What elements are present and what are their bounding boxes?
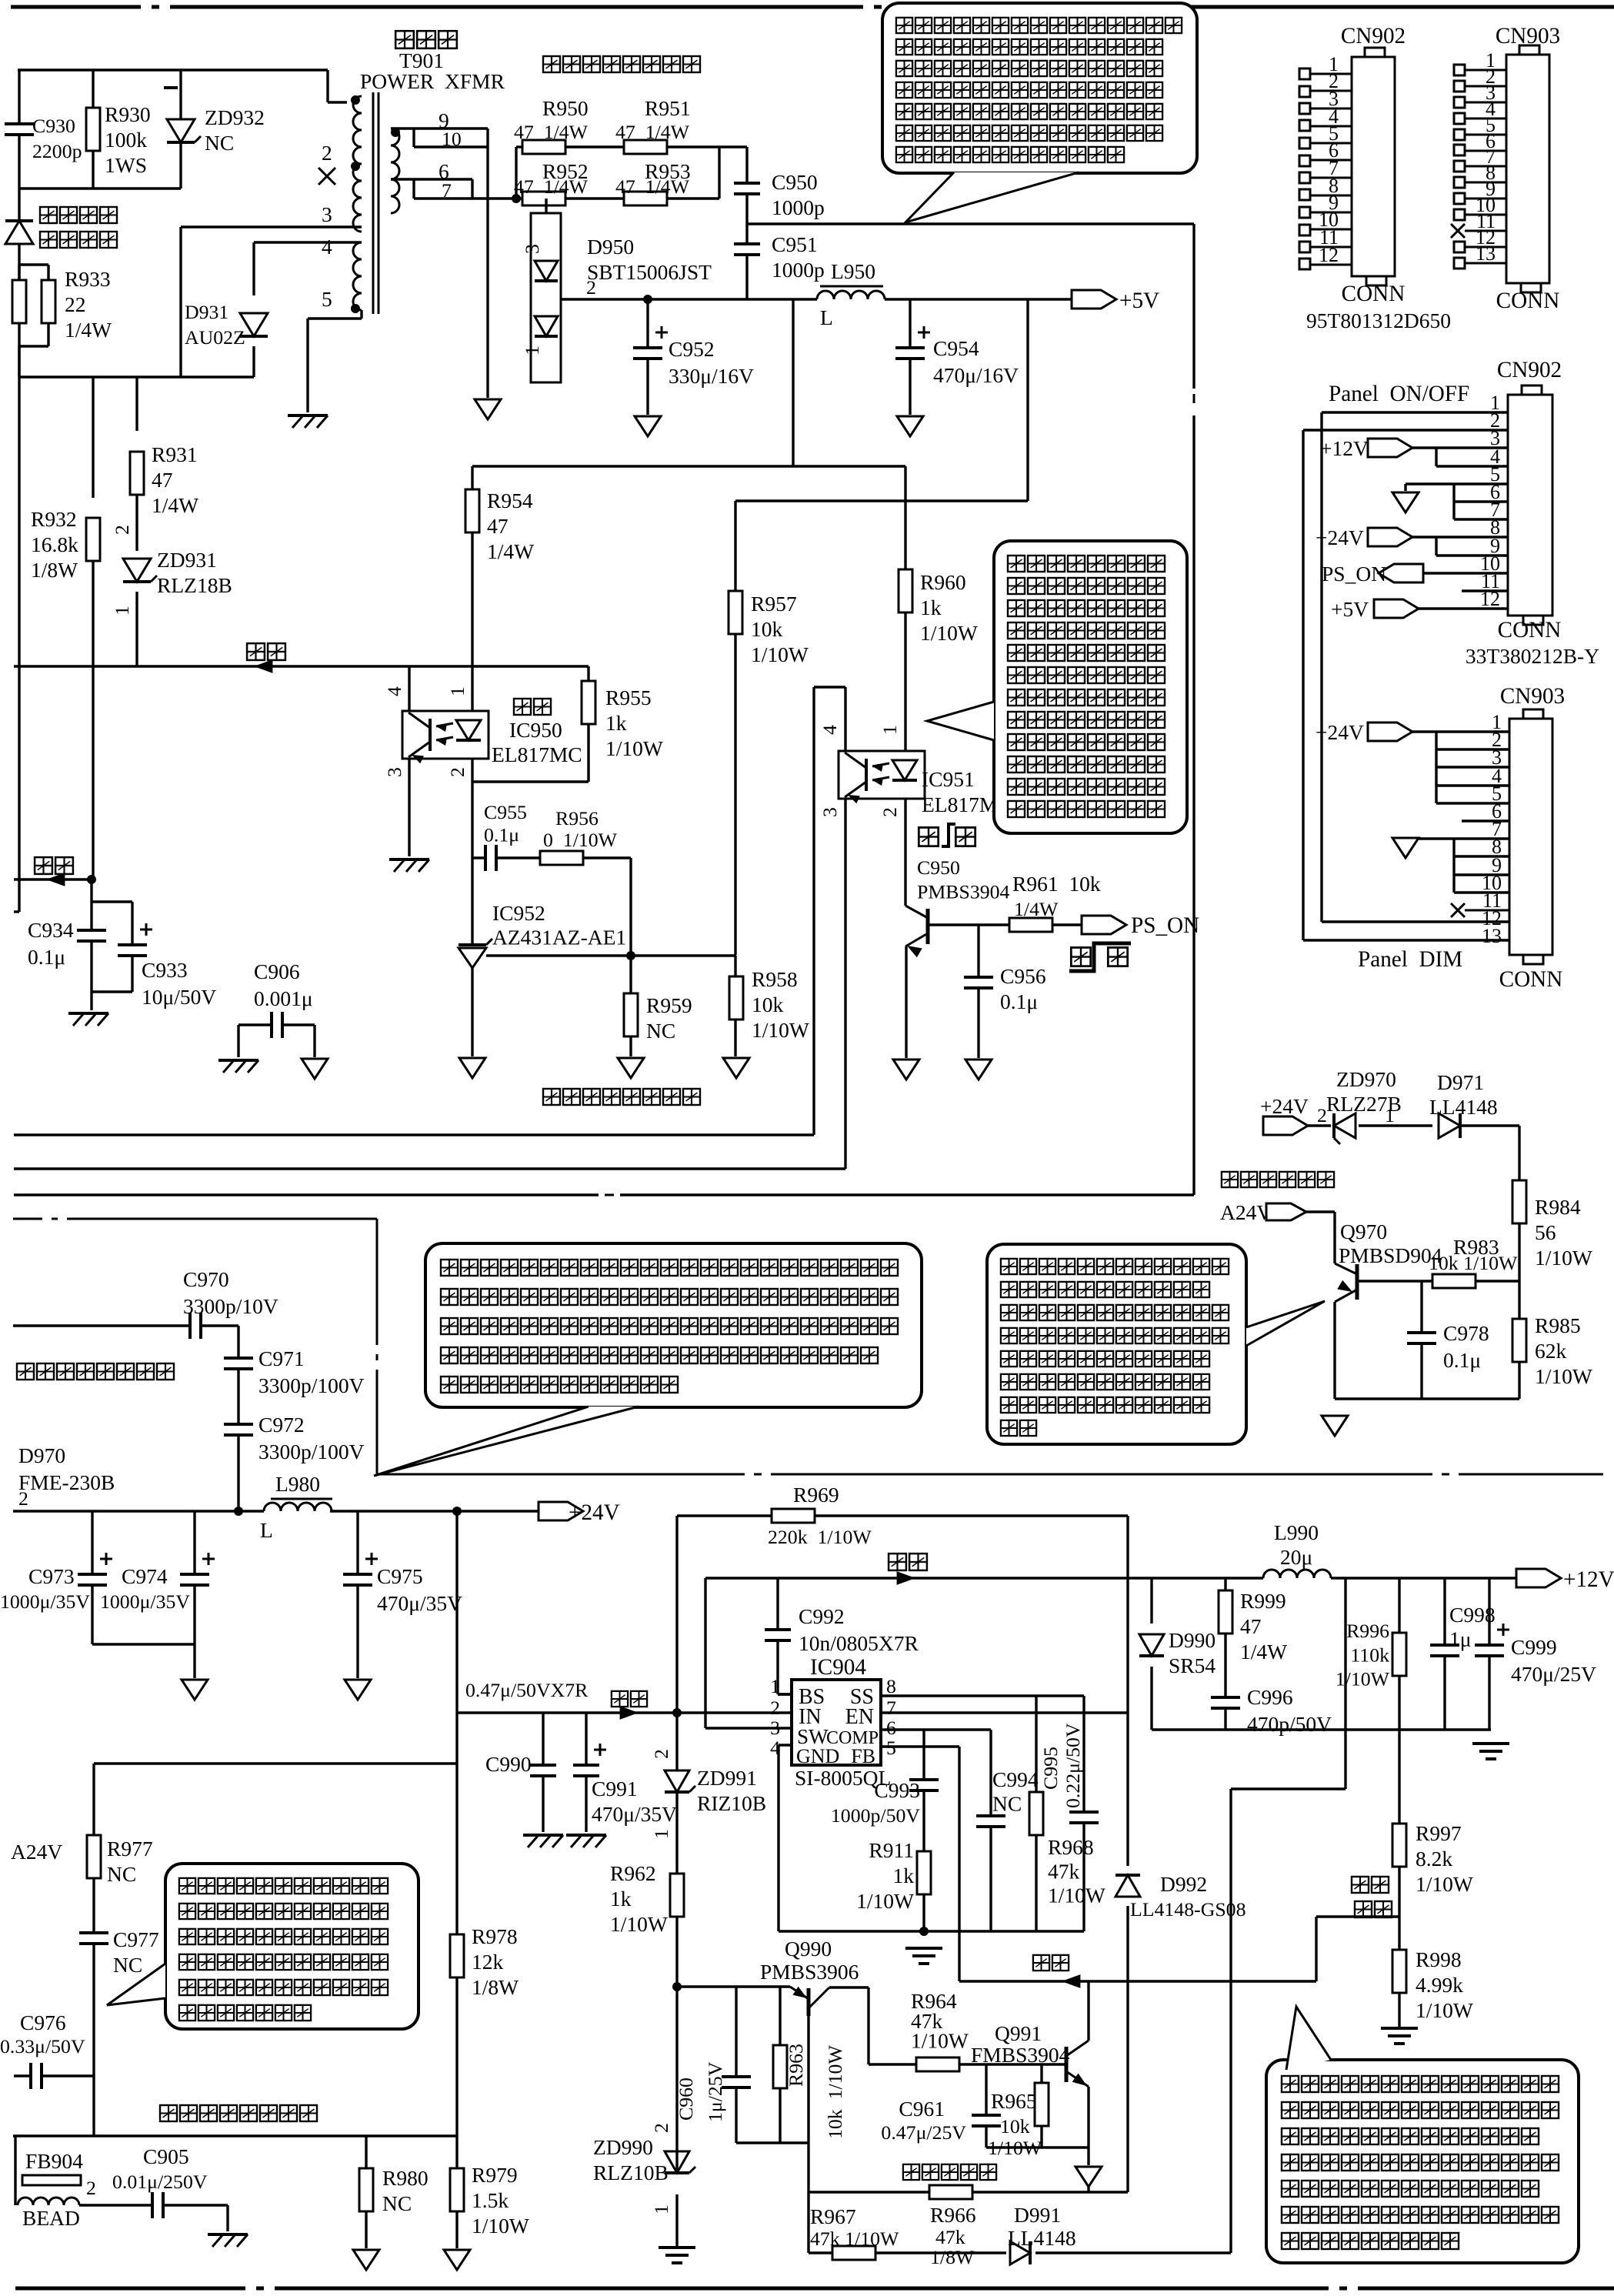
label PS_ON (panel): [1322, 562, 1386, 586]
svg-text:47: 47: [152, 468, 173, 492]
wire C956 branch: [977, 925, 979, 1058]
capacitor C934: [77, 930, 106, 941]
ground (C991): [566, 1835, 606, 1847]
wire +5V rail: [561, 298, 1072, 300]
svg-text:Q970: Q970: [1340, 1220, 1387, 1243]
svg-text:47k: 47k: [1048, 1859, 1080, 1883]
section divider (dash-dot): [13, 1219, 1603, 1474]
svg-text:16.8k: 16.8k: [31, 532, 78, 556]
wire IC951 pin3 down: [844, 799, 846, 1169]
label ZD991: [697, 1766, 766, 1815]
tag +24V (ovp): [1263, 1116, 1308, 1135]
label ZD932: [205, 105, 265, 155]
capacitor C973: [78, 1553, 112, 1585]
label C970: [183, 1267, 278, 1318]
wire R977 branch: [92, 1764, 95, 2136]
ground (Q991): [1075, 2167, 1102, 2187]
wire Q970 base row: [1357, 1280, 1519, 1282]
wire R960 branch: [904, 466, 906, 751]
wire 稳压 line: [14, 665, 589, 667]
wire D990 branch: [1150, 1578, 1152, 1730]
svg-text:C956: C956: [1000, 964, 1046, 988]
label C961 value: [881, 2121, 966, 2144]
ground (IC904): [905, 1948, 942, 1964]
tap 2 (NC) mark: [318, 141, 335, 185]
tag +24V (dim): [1368, 723, 1412, 741]
label CN903 (lower): [1500, 684, 1565, 709]
svg-text:POWER XFMR: POWER XFMR: [360, 69, 505, 93]
label R969 value: [768, 1526, 872, 1548]
connector CN902 lower pin lines: [1480, 392, 1500, 610]
svg-text:7: 7: [442, 179, 452, 202]
optocoupler IC950: [402, 711, 489, 763]
label C993 value: [831, 1804, 920, 1827]
label C976 value: [0, 2035, 85, 2057]
svg-text:NC: NC: [992, 1791, 1022, 1815]
svg-text:4: 4: [322, 235, 332, 259]
svg-text:C952: C952: [669, 337, 715, 361]
svg-text:1: 1: [521, 345, 543, 355]
svg-text:1000μ/35V: 1000μ/35V: [0, 1590, 90, 1613]
svg-text:R954: R954: [487, 489, 533, 512]
svg-text:R930: R930: [105, 102, 151, 126]
callout 稳压控制电路 (+24V): [107, 1864, 419, 2029]
svg-text:10μ/50V: 10μ/50V: [142, 985, 216, 1009]
label +12V: [1563, 1567, 1614, 1592]
resistor R969: [772, 1509, 815, 1523]
ground (C954): [897, 416, 923, 436]
label 0.47u/50VX7R: [465, 1679, 589, 1701]
svg-text:1/8W: 1/8W: [930, 2246, 975, 2268]
svg-text:ZD932: ZD932: [205, 105, 265, 129]
ground (Q970): [1322, 1416, 1348, 1436]
svg-text:13: 13: [1482, 925, 1502, 947]
wire R950 row: [516, 145, 719, 148]
wire Q950 emitter down: [905, 946, 907, 1058]
label R977: [107, 1837, 153, 1886]
label SI-8005QL: [795, 1766, 891, 1790]
svg-text:330μ/16V: 330μ/16V: [669, 364, 754, 388]
svg-text:1.5k: 1.5k: [472, 2188, 509, 2212]
resistor R930: [86, 108, 100, 151]
svg-text:1/10W: 1/10W: [752, 1018, 809, 1042]
diode D931: [240, 313, 268, 336]
svg-text:PS_ON: PS_ON: [1322, 562, 1386, 586]
capacitor C991 (pol): [573, 1744, 606, 1776]
svg-text:R958: R958: [752, 967, 798, 991]
svg-text:100k: 100k: [105, 128, 147, 152]
text 变压器: [394, 28, 459, 50]
diode D991: [1010, 2241, 1030, 2264]
svg-text:95T801312D650: 95T801312D650: [1306, 309, 1451, 332]
label R964: [911, 1989, 969, 2053]
svg-text:4: 4: [819, 725, 841, 735]
label +5V: [1119, 289, 1159, 313]
wire C905 row: [79, 2205, 228, 2231]
text 接IC970的1脚: [1220, 1170, 1336, 1189]
svg-text:Panel DIM: Panel DIM: [1358, 947, 1462, 972]
svg-text:R950: R950: [542, 96, 589, 120]
ground (pin5): [288, 415, 328, 428]
transistor Q990 (PMBS3906): [790, 1987, 829, 2016]
callout +12V电压形成电路: [1266, 2007, 1579, 2263]
wire GND pin4: [779, 1745, 792, 1931]
callout 开/关机控制: [927, 541, 1187, 833]
svg-text:3: 3: [383, 767, 405, 777]
shunt regulator IC952 (AZ431): [459, 939, 492, 968]
ground (+12V rail): [1472, 1744, 1509, 1759]
inductor L950: [817, 291, 885, 299]
arrow on output line: [897, 1571, 915, 1585]
capacitor C955: [485, 845, 496, 871]
svg-text:C977: C977: [113, 1927, 159, 1951]
svg-text:R998: R998: [1416, 1947, 1462, 1971]
label R931: [152, 442, 198, 517]
svg-text:R933: R933: [65, 267, 111, 291]
resistor R950: [522, 140, 565, 154]
wire COMP pin6: [881, 1730, 991, 1816]
tag PS_ON (panel): [1379, 564, 1423, 582]
svg-text:D971: D971: [1437, 1070, 1484, 1094]
wire D950 pin3 stub: [545, 199, 547, 213]
capacitor C951: [734, 244, 760, 255]
wire C933 stub: [92, 941, 132, 1010]
label C954: [933, 336, 1019, 387]
label C934: [28, 918, 74, 969]
callout 副电源 description: [882, 3, 1197, 222]
label ZD931: [157, 548, 232, 597]
svg-text:C994: C994: [992, 1767, 1039, 1791]
svg-text:C999: C999: [1511, 1635, 1557, 1659]
resistor R931: [130, 452, 144, 495]
svg-text:1/10W: 1/10W: [1048, 1884, 1105, 1907]
label IC952: [492, 901, 626, 949]
wire R967/D991 row: [809, 2192, 1231, 2253]
wire dim pin12: [1322, 920, 1509, 923]
wire +24V rail left: [13, 1510, 264, 1512]
label IC951: [922, 767, 1012, 816]
label FMBS3904: [971, 2043, 1070, 2067]
svg-text:D931: D931: [185, 301, 228, 323]
svg-text:RLZ18B: RLZ18B: [157, 573, 232, 597]
svg-text:R999: R999: [1240, 1589, 1286, 1613]
label R978: [472, 1924, 519, 1999]
label C950: [772, 170, 825, 219]
wire Q990 base down: [807, 2014, 809, 2143]
svg-text:D970: D970: [18, 1443, 65, 1467]
tag PS_ON: [1082, 916, 1126, 934]
label CN903: [1496, 24, 1560, 48]
wire ovp bottom: [1335, 1397, 1519, 1400]
wire dim pins8-10 bus: [1454, 839, 1509, 893]
ground (C905): [208, 2234, 248, 2247]
wire rail to R954/R960 line: [472, 299, 905, 466]
capacitor C975: [343, 1553, 378, 1585]
resistor R951: [624, 140, 667, 154]
wire FB line: [959, 1980, 1316, 1982]
wire C934 branch: [90, 879, 92, 930]
label R967: [810, 2204, 856, 2228]
text 开关 (IC951): [917, 824, 977, 848]
label +5V (panel): [1331, 597, 1369, 621]
wire C974 branch: [92, 1511, 195, 1678]
svg-text:R977: R977: [107, 1837, 153, 1860]
svg-text:470μ/35V: 470μ/35V: [377, 1591, 462, 1615]
label C955: [484, 801, 527, 846]
svg-text:C978: C978: [1443, 1321, 1489, 1345]
svg-text:10k 1/10W: 10k 1/10W: [1429, 1252, 1518, 1274]
wire ZD990: [675, 2150, 678, 2246]
label R952: [542, 159, 589, 183]
svg-text:C933: C933: [142, 958, 188, 982]
svg-text:R932: R932: [31, 507, 77, 531]
svg-text:C976: C976: [20, 2011, 66, 2034]
resistor R933a: [12, 280, 26, 323]
label POWER XFMR: [360, 69, 505, 93]
svg-text:LL4148: LL4148: [1008, 2226, 1076, 2250]
capacitor C993: [909, 1780, 939, 1790]
svg-text:C995: C995: [1039, 1747, 1062, 1790]
label C975: [377, 1564, 462, 1615]
secondary dot pin9: [391, 128, 400, 137]
svg-text:+12V: +12V: [1320, 436, 1369, 460]
svg-text:2200p: 2200p: [32, 140, 82, 162]
text 取样: [1353, 1899, 1393, 1919]
svg-text:RIZ10B: RIZ10B: [697, 1791, 766, 1815]
wire D992 branch: [1126, 1713, 1129, 1981]
ground (C990): [523, 1835, 563, 1847]
wire C976 row: [14, 2074, 94, 2077]
wire C978 branch: [1420, 1281, 1422, 1399]
ground (panel pins 5-7): [1392, 492, 1419, 512]
label R957: [751, 592, 809, 666]
IC904 pin numbers: [770, 1675, 896, 1759]
connector CN902 body: [1352, 48, 1395, 285]
wire IC950 pin1 up: [471, 666, 473, 711]
svg-text:470p/50V: 470p/50V: [1247, 1712, 1332, 1736]
wire C970 row: [13, 1326, 238, 1358]
label C971: [258, 1347, 365, 1397]
svg-text:C930: C930: [32, 115, 75, 137]
text 取样误差放大电路: [542, 1086, 702, 1106]
wire IC952 anode down: [471, 968, 473, 1056]
svg-text:R957: R957: [751, 592, 797, 616]
svg-text:EL817MC: EL817MC: [492, 743, 582, 766]
tag +12V (panel): [1368, 439, 1412, 457]
label T901: [399, 48, 444, 72]
svg-text:1: 1: [446, 686, 469, 696]
wire C991 branch: [585, 1713, 587, 1832]
connector CN903 pins 1-13: [1451, 49, 1506, 269]
svg-text:NC: NC: [113, 1953, 142, 1977]
text 反馈: [33, 855, 75, 876]
wire pin1 long vertical: [1322, 412, 1508, 922]
svg-text:1/4W: 1/4W: [65, 318, 112, 342]
wire R959 branch: [629, 956, 632, 1056]
svg-text:10k: 10k: [752, 993, 784, 1016]
svg-text:FME-230B: FME-230B: [18, 1470, 115, 1494]
capacitor C906: [272, 1012, 282, 1038]
svg-text:13: 13: [1476, 242, 1496, 265]
svg-text:C990: C990: [485, 1752, 532, 1776]
label R955: [605, 686, 663, 760]
capacitor C961: [972, 2115, 1001, 2126]
wire UV sense: [1231, 1578, 1346, 2253]
svg-text:R960: R960: [920, 570, 966, 594]
break mark on vertical: [1193, 394, 1195, 403]
label R969: [793, 1483, 839, 1507]
svg-text:47: 47: [1240, 1614, 1262, 1638]
node A (pin7/R952): [512, 194, 521, 203]
label R952 value: [514, 175, 589, 198]
wire C999 branch: [1488, 1578, 1490, 1730]
capacitor C972: [224, 1424, 253, 1435]
wire IC952 ref: [486, 954, 736, 956]
wire pin8: [1412, 536, 1508, 538]
wire EN pin7: [881, 1711, 1128, 1714]
svg-text:CONN: CONN: [1499, 967, 1563, 992]
capacitor C956: [964, 977, 993, 988]
label R965 value2: [1000, 2115, 1030, 2137]
svg-text:C951: C951: [772, 232, 818, 256]
diode D950 upper: [535, 261, 558, 281]
label C998: [1449, 1603, 1496, 1650]
wire pin5: [1406, 484, 1508, 491]
wire bottom rail: [13, 2134, 457, 2137]
wire R-network right: [719, 147, 747, 199]
tag +5V: [1072, 290, 1116, 309]
wire C973 branch: [91, 1511, 93, 1644]
resistor R984: [1512, 1180, 1526, 1223]
svg-text:1/10W: 1/10W: [1535, 1364, 1592, 1388]
label BEAD: [22, 2206, 80, 2230]
svg-text:1k: 1k: [893, 1864, 915, 1887]
resistor R977: [87, 1835, 101, 1878]
wire SW down to IC904: [705, 1578, 792, 1728]
wire C955 row: [472, 858, 631, 956]
svg-text:2: 2: [111, 525, 133, 535]
capacitor C971: [224, 1358, 253, 1369]
wire Q950 base row: [928, 923, 1082, 926]
arrow on 稳压 line: [254, 659, 272, 673]
wire IN pin2 (input rail): [457, 1711, 792, 1714]
label CONN (panel CN902): [1498, 618, 1562, 642]
capacitor C995: [1069, 1812, 1099, 1823]
resistor R964: [916, 2057, 959, 2071]
label 95T801312D650: [1306, 309, 1451, 332]
diode D971: [1439, 1113, 1460, 1138]
ground (R958): [723, 1058, 749, 1078]
wire C954: [909, 299, 911, 415]
wire R932 to fankui: [92, 561, 94, 879]
diode D992: [1115, 1875, 1140, 1897]
svg-text:33T380212B-Y: 33T380212B-Y: [1466, 644, 1599, 668]
junction input rail/ZD991: [672, 1708, 682, 1717]
wire pin9 bus: [1436, 537, 1508, 556]
wire R930 vertical: [92, 70, 94, 189]
wire IC950 pin3 down: [408, 759, 410, 856]
label C974 value: [100, 1590, 190, 1613]
primary dot mid: [351, 162, 360, 171]
svg-text:0.22μ/50V: 0.22μ/50V: [1062, 1723, 1084, 1808]
text 开关 (PS_ON): [1069, 943, 1131, 971]
svg-text:47k 1/10W: 47k 1/10W: [810, 2228, 899, 2250]
svg-text:R980: R980: [382, 2166, 429, 2190]
svg-text:10k: 10k: [751, 617, 783, 641]
wire R954: [471, 466, 473, 666]
svg-text:47 1/4W: 47 1/4W: [514, 121, 589, 143]
wire C992 branch: [778, 1578, 792, 1694]
wire R996 branch: [1398, 1578, 1400, 1730]
wire snubber bottom: [19, 187, 181, 189]
label D931: [185, 301, 245, 349]
wire bead left: [14, 2136, 16, 2205]
label +24V (ovp): [1260, 1094, 1309, 1118]
resistor R958: [729, 976, 743, 1020]
svg-text:FMBS3904: FMBS3904: [971, 2043, 1070, 2067]
capacitor C960: [722, 2077, 751, 2087]
svg-text:D992: D992: [1160, 1872, 1207, 1896]
svg-text:3: 3: [521, 244, 543, 254]
label C992: [799, 1604, 919, 1655]
capacitor C933 (pol): [118, 923, 152, 956]
text 关 (IC951): [954, 825, 977, 848]
svg-text:20μ: 20μ: [1280, 1545, 1312, 1569]
label R956 value: [543, 829, 618, 851]
wire A-rail vertical: [455, 1511, 458, 2136]
wire R998 branch: [1398, 1917, 1400, 2027]
label R953 value: [615, 175, 690, 198]
svg-text:C996: C996: [1247, 1685, 1293, 1709]
svg-text:1: 1: [650, 1829, 672, 1839]
wire C993-R911 chain: [922, 1730, 925, 1931]
connector CN903 lower body: [1509, 709, 1552, 964]
junction 反馈/R932/C934: [87, 875, 96, 884]
resistor R997: [1392, 1824, 1406, 1867]
svg-text:4: 4: [383, 686, 405, 696]
tag +24V (out): [539, 1502, 583, 1520]
capacitor C950: [734, 183, 760, 194]
svg-text:1/4W: 1/4W: [152, 493, 198, 517]
wire C933 branch: [92, 902, 132, 945]
svg-text:1/4W: 1/4W: [1240, 1640, 1287, 1664]
svg-text:R966: R966: [930, 2203, 976, 2227]
svg-text:0.1μ: 0.1μ: [28, 945, 65, 969]
text 关 (PS_ON): [1106, 945, 1129, 968]
svg-text:R961 10k: R961 10k: [1012, 872, 1101, 896]
wire R933 bottom: [19, 323, 48, 377]
label +24V (dim): [1316, 720, 1364, 744]
wire R952 row: [516, 197, 719, 199]
svg-text:220k 1/10W: 220k 1/10W: [768, 1526, 872, 1548]
svg-text:R996: R996: [1346, 1620, 1389, 1642]
svg-text:+24V: +24V: [1316, 526, 1364, 549]
svg-text:R979: R979: [472, 2163, 518, 2187]
inductor L980: [264, 1503, 332, 1511]
resistor R954: [465, 489, 479, 532]
svg-text:R965: R965: [991, 2089, 1037, 2113]
callout 主电源 description: [374, 1243, 922, 1476]
svg-text:7: 7: [886, 1697, 896, 1719]
transformer primary winding upper: [353, 96, 362, 164]
ground (R979): [444, 2250, 470, 2270]
ground (ZD990): [659, 2248, 695, 2263]
label L990: [1274, 1520, 1319, 1569]
svg-text:C975: C975: [377, 1564, 423, 1588]
svg-text:GND: GND: [796, 1745, 839, 1767]
diode in snubber leg: [5, 221, 33, 244]
svg-text:1/4W: 1/4W: [487, 539, 534, 563]
